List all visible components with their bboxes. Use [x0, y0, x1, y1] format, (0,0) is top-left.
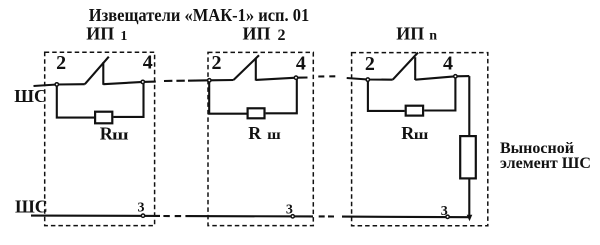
- svg-text:2: 2: [278, 27, 286, 44]
- svg-text:2: 2: [212, 52, 222, 74]
- svg-text:2: 2: [56, 52, 66, 74]
- svg-text:ш: ш: [112, 127, 129, 143]
- svg-text:элемент ШС: элемент ШС: [500, 155, 591, 172]
- svg-text:3: 3: [138, 201, 145, 216]
- svg-text:3: 3: [286, 202, 293, 217]
- svg-text:1: 1: [120, 29, 127, 44]
- svg-text:4: 4: [143, 52, 153, 74]
- svg-text:ш: ш: [414, 128, 429, 143]
- svg-text:2: 2: [365, 53, 375, 75]
- svg-text:R: R: [248, 123, 262, 143]
- svg-text:4: 4: [443, 53, 453, 75]
- svg-text:ШС: ШС: [15, 197, 48, 217]
- svg-text:ш: ш: [267, 128, 281, 143]
- svg-text:Извещатели «МАК-1» исп. 01: Извещатели «МАК-1» исп. 01: [89, 5, 309, 25]
- svg-text:ШС: ШС: [14, 86, 47, 106]
- svg-text:n: n: [429, 29, 437, 44]
- svg-text:ИП: ИП: [243, 23, 271, 43]
- svg-text:ИП: ИП: [86, 24, 114, 44]
- svg-text:ИП: ИП: [396, 23, 424, 43]
- svg-text:3: 3: [441, 204, 448, 219]
- svg-text:4: 4: [296, 52, 306, 74]
